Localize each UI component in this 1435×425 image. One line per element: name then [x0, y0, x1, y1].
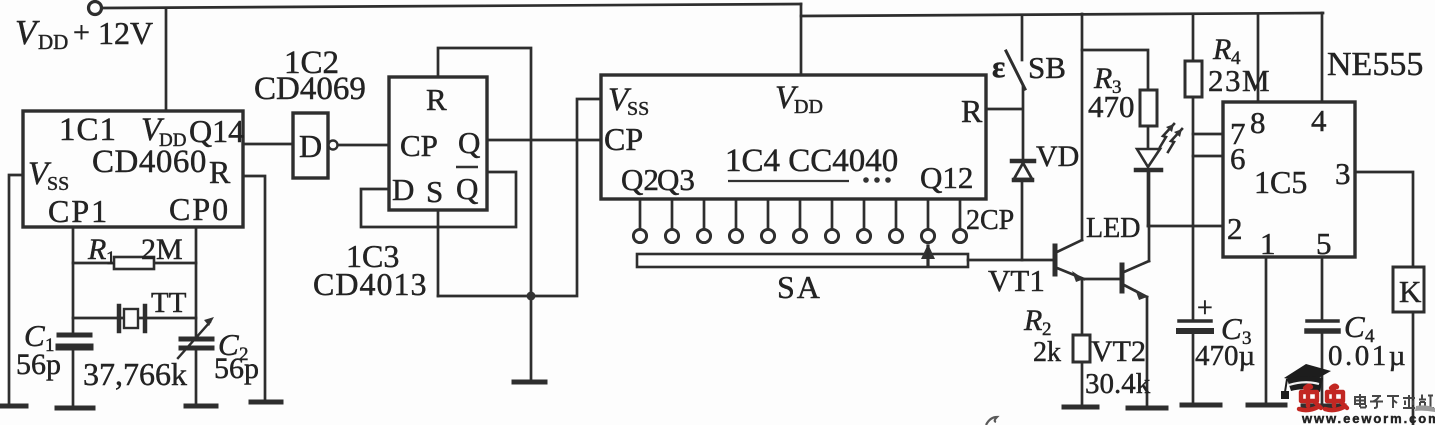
wire Q14 to inverter	[243, 143, 293, 146]
IC 1C4 CC4040 box	[601, 75, 986, 199]
wire CP1 down	[72, 227, 75, 332]
resistor R4	[1192, 14, 1195, 61]
IC 1C1 CD4060 box	[23, 111, 243, 227]
wire inverter out to 1C3 CP	[338, 144, 389, 147]
crystal TT	[117, 306, 122, 331]
junction dot	[527, 292, 536, 301]
svg-text:R: R	[209, 154, 231, 190]
wire 1C1 VSS left down	[9, 175, 23, 405]
ground pin1	[1248, 403, 1285, 408]
wire 1C4 R to SB line	[986, 108, 1022, 111]
svg-text:0.01µ: 0.01µ	[1328, 340, 1408, 372]
capacitor C4	[1321, 257, 1324, 320]
watermark chinese site name	[1355, 394, 1434, 408]
1C4 output pins Q2..Q12	[633, 199, 966, 243]
ground C1	[57, 406, 93, 411]
svg-text:470: 470	[1088, 89, 1135, 124]
svg-text:1: 1	[106, 248, 116, 269]
ground 1C1 R	[251, 400, 281, 405]
svg-text:DD: DD	[794, 96, 823, 118]
svg-text:37,766k: 37,766k	[83, 356, 187, 392]
svg-text:NE555: NE555	[1327, 46, 1423, 83]
IC 1C3 CD4013 box	[389, 77, 487, 210]
svg-text:VT1: VT1	[988, 263, 1045, 298]
wire top rail right	[801, 13, 1323, 16]
wire VT1 emitter to VT2 base	[1082, 278, 1122, 281]
svg-text:CP: CP	[604, 121, 643, 157]
svg-text:V: V	[15, 13, 40, 52]
ground 1C3 R	[514, 380, 545, 385]
svg-text:1: 1	[1260, 226, 1276, 261]
svg-text:CD4069: CD4069	[254, 71, 366, 107]
ground C3	[1182, 403, 1220, 408]
svg-text:470µ: 470µ	[1195, 340, 1255, 372]
diode VD	[1012, 159, 1034, 164]
transistor VT1	[1053, 246, 1058, 274]
svg-text:Q12: Q12	[920, 160, 973, 195]
IC 1C5 NE555 box	[1223, 102, 1355, 257]
svg-text:1C5: 1C5	[1254, 164, 1307, 200]
svg-text:1C4 CC4040: 1C4 CC4040	[725, 143, 898, 179]
wire crystal row	[73, 317, 196, 320]
svg-text:2CP: 2CP	[966, 205, 1014, 236]
svg-text:CD4060: CD4060	[92, 144, 207, 180]
wire 555 pin7	[1193, 133, 1223, 136]
svg-text:R: R	[426, 82, 447, 117]
svg-text:+: +	[1197, 293, 1213, 324]
ground 1C1 VSS	[0, 404, 26, 409]
svg-text:C: C	[1344, 309, 1365, 344]
svg-text:SS: SS	[627, 98, 649, 120]
svg-text:LED: LED	[1086, 213, 1140, 244]
wire 555 pin3 to K	[1355, 172, 1413, 267]
svg-text:Q: Q	[458, 125, 480, 160]
svg-text:30.4k: 30.4k	[1085, 368, 1151, 400]
wire 1C3 S down	[437, 210, 440, 296]
ground VT2	[1128, 406, 1166, 411]
svg-text:D: D	[299, 128, 322, 164]
svg-text:12V: 12V	[98, 15, 153, 51]
LED symbol	[1137, 149, 1160, 167]
inverter 1C2 box	[293, 113, 328, 178]
LED light arrows	[1160, 124, 1174, 147]
svg-text:2: 2	[1227, 211, 1243, 246]
wire VDD drop to 1C4	[800, 4, 803, 75]
svg-text:R: R	[87, 233, 106, 266]
resistor R2 body	[1073, 335, 1090, 362]
svg-text:+: +	[73, 16, 90, 49]
svg-text:CP1: CP1	[48, 193, 109, 229]
svg-text:56p: 56p	[16, 348, 61, 381]
svg-text:3: 3	[1335, 156, 1351, 191]
svg-text:2k: 2k	[1033, 337, 1061, 368]
watermark graduation cap	[1281, 364, 1331, 399]
svg-text:CD4013: CD4013	[313, 266, 427, 302]
wire ground row to 1C4 VSS	[438, 99, 601, 296]
svg-text:Q3: Q3	[657, 162, 695, 197]
svg-text:R: R	[1212, 33, 1231, 66]
stray mark	[986, 417, 997, 425]
wire SA to VT1 base	[968, 259, 1055, 262]
svg-text:2M: 2M	[141, 233, 183, 266]
wire CP0 down	[195, 227, 198, 337]
svg-text:R: R	[961, 93, 983, 129]
svg-text:K: K	[1399, 274, 1422, 309]
svg-text:SA: SA	[777, 269, 822, 305]
svg-text:Q: Q	[456, 171, 478, 206]
svg-text:56p: 56p	[214, 352, 259, 385]
svg-text:SB: SB	[1028, 50, 1066, 85]
wire 1C1 R to ground	[243, 176, 265, 401]
svg-text:4: 4	[1311, 103, 1327, 138]
capacitor C2 variable	[181, 337, 212, 342]
svg-text:CP: CP	[400, 128, 438, 163]
capacitor C3	[1179, 319, 1211, 323]
svg-text:TT: TT	[151, 287, 187, 319]
svg-text:8: 8	[1250, 105, 1266, 140]
svg-text:VT2: VT2	[1091, 335, 1146, 368]
wire 555 pin8 up	[1257, 14, 1260, 102]
wire 555 pin4 up	[1321, 13, 1324, 102]
relay K box	[1393, 267, 1424, 312]
svg-text:5: 5	[1316, 226, 1332, 261]
wire VDD drop to 1C1	[165, 8, 168, 111]
svg-text:23M: 23M	[1208, 63, 1271, 98]
svg-text:1C1: 1C1	[59, 112, 117, 148]
resistor R3 body	[1140, 90, 1157, 126]
svg-text:6: 6	[1230, 141, 1246, 176]
svg-text:D: D	[392, 172, 414, 207]
transistor VT2	[1120, 265, 1125, 291]
wire R1 row	[73, 262, 196, 265]
selector SA bar	[637, 254, 968, 267]
svg-text:VD: VD	[1036, 140, 1079, 173]
wire 555 pin1 down	[1265, 257, 1268, 404]
resistor R1 body	[114, 257, 154, 269]
wire 555 pin6	[1193, 155, 1223, 158]
ground R2	[1064, 405, 1097, 410]
wire 1C3 Q to 1C4 CP	[487, 139, 601, 142]
ground C2	[186, 404, 216, 409]
wire 1C3 Qbar loop to D	[361, 172, 516, 227]
wire LED row to 555 pin2	[1148, 225, 1223, 228]
svg-text:CP0: CP0	[169, 191, 230, 227]
svg-text:ε: ε	[992, 49, 1005, 84]
wire emitter down to R2	[1081, 279, 1084, 335]
watermark chong chong red glyphs	[1299, 386, 1347, 410]
switch SB	[1021, 15, 1024, 60]
power terminal	[89, 2, 102, 15]
capacitor C1	[59, 333, 90, 338]
svg-text:DD: DD	[38, 30, 68, 54]
svg-text:www.eeworm.com: www.eeworm.com	[1301, 411, 1435, 425]
ground C4	[1303, 404, 1344, 409]
SA wiper arrow	[921, 244, 935, 259]
svg-text:SS: SS	[47, 173, 69, 195]
watermark smudge	[1415, 405, 1435, 412]
wire VT1 collector branch to R3	[1082, 50, 1148, 90]
svg-text:R: R	[1023, 304, 1042, 337]
wire 1C3 R up over to ground line	[438, 48, 531, 381]
wire top rail left	[102, 4, 801, 8]
svg-text:S: S	[426, 174, 443, 209]
svg-text:Q2: Q2	[621, 162, 659, 197]
